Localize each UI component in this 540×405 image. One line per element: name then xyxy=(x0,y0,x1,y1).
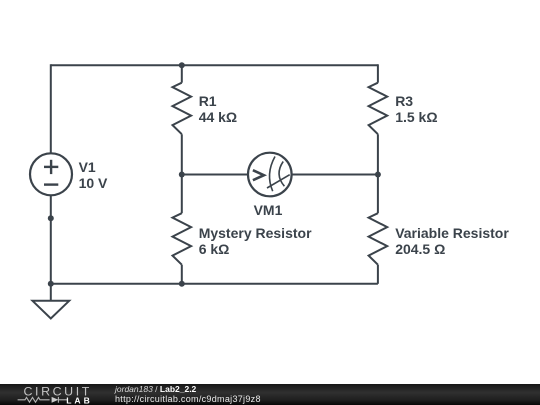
wire middle rail stub R1-to-node xyxy=(181,134,183,213)
resistor R1 xyxy=(173,83,192,135)
label R1 value xyxy=(199,93,237,125)
footer bar xyxy=(0,384,540,405)
voltmeter VM1 xyxy=(248,153,292,197)
label VM1 xyxy=(254,202,283,218)
node top middle junction xyxy=(179,62,185,68)
footer url line xyxy=(115,393,261,405)
voltage source V1 xyxy=(30,153,72,195)
wire right rail stub top xyxy=(377,64,379,82)
node V1 negative stub junction xyxy=(48,215,54,221)
node bottom-middle junction xyxy=(179,281,185,287)
wire top rail xyxy=(51,64,378,66)
wire right rail stub R3-to-node xyxy=(377,134,379,213)
wire middle rail stub top xyxy=(181,65,183,82)
node bottom-left junction xyxy=(48,281,54,287)
label V1 value xyxy=(79,159,108,191)
wire middle horizontal left of VM1 xyxy=(182,174,249,176)
wire right rail stub bottom xyxy=(377,265,379,284)
svg-text:LAB: LAB xyxy=(66,395,93,405)
wire left rail lower xyxy=(50,195,52,300)
wire middle horizontal right of VM1 xyxy=(291,174,378,176)
ground xyxy=(33,301,70,319)
node middle-left VM junction xyxy=(179,172,185,178)
wire middle rail stub bottom xyxy=(181,265,183,284)
resistor Mystery Resistor xyxy=(173,213,192,265)
footer credit line xyxy=(115,383,196,395)
CircuitLab logo xyxy=(14,384,114,405)
node middle-right VM junction xyxy=(375,172,381,178)
label Mystery Resistor value xyxy=(199,225,312,257)
resistor Variable Resistor xyxy=(369,213,388,265)
wire bottom rail xyxy=(51,283,378,285)
label R3 value xyxy=(395,93,437,125)
label Variable Resistor value xyxy=(395,225,509,257)
resistor R3 xyxy=(369,83,388,135)
wire left rail upper xyxy=(50,64,52,153)
